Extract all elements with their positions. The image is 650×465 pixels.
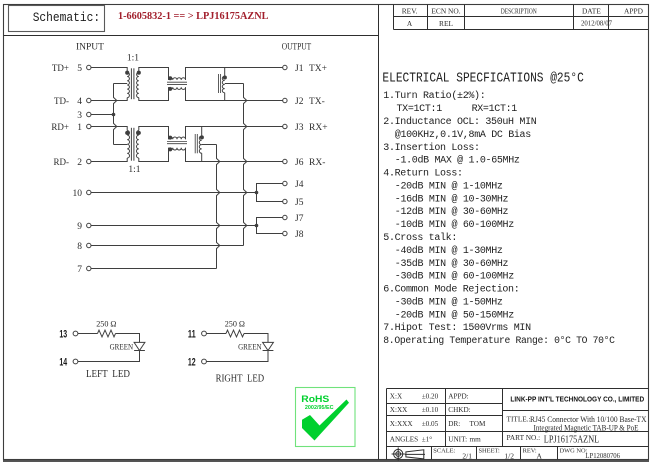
svg-text:RX=1CT:1: RX=1CT:1 bbox=[472, 104, 518, 115]
svg-text:ANGLES: ANGLES bbox=[390, 436, 418, 444]
wire A2 tap bbox=[202, 144, 217, 146]
svg-text:8.Operating Temperature Range:: 8.Operating Temperature Range: 0°C TO 70… bbox=[383, 335, 615, 347]
svg-text:250 Ω: 250 Ω bbox=[96, 319, 116, 329]
wire pin11 to resistor bbox=[206, 333, 226, 335]
svg-text:TX=1CT:1: TX=1CT:1 bbox=[397, 104, 443, 115]
pin 4 terminal bbox=[87, 98, 91, 102]
wire T2 primary center tap bbox=[114, 144, 128, 146]
svg-text:1.Turn Ratio(±2%):: 1.Turn Ratio(±2%): bbox=[383, 90, 485, 102]
svg-text:2002/95/EC: 2002/95/EC bbox=[305, 405, 334, 411]
svg-text:J2: J2 bbox=[295, 97, 304, 107]
pin 9 terminal bbox=[87, 223, 91, 227]
pin 1 terminal bbox=[87, 124, 91, 128]
wire pin7 bbox=[91, 268, 217, 270]
svg-text:SCALE:: SCALE: bbox=[433, 447, 455, 454]
svg-text:3: 3 bbox=[77, 111, 82, 121]
wire pin8 bbox=[91, 245, 244, 247]
wire A1 tap bbox=[225, 83, 244, 85]
svg-text:-12dB MIN @ 30-60MHz: -12dB MIN @ 30-60MHz bbox=[395, 206, 509, 218]
svg-text:14: 14 bbox=[59, 357, 67, 369]
pin 3 terminal bbox=[87, 112, 91, 116]
svg-text:7: 7 bbox=[77, 265, 82, 275]
wire pin5 TD+ to T1 primary top bbox=[91, 68, 127, 73]
svg-text:-40dB MIN @ 1-30MHz: -40dB MIN @ 1-30MHz bbox=[395, 245, 503, 257]
svg-text:APPD: APPD bbox=[624, 6, 644, 15]
wire pin10 to J4/J5 junction bbox=[91, 192, 257, 194]
wire pin3 to center-tap junction bbox=[91, 114, 114, 116]
choke CH1 common-mode TX bbox=[167, 77, 187, 91]
svg-text:250 Ω: 250 Ω bbox=[225, 319, 245, 329]
wire T2 secondary top to choke CH2 bbox=[139, 127, 169, 140]
svg-text:DR:: DR: bbox=[448, 420, 460, 428]
pin J4 terminal bbox=[283, 181, 287, 185]
svg-text:LP12080706: LP12080706 bbox=[585, 451, 620, 460]
svg-text:-35dB MIN @ 30-60MHz: -35dB MIN @ 30-60MHz bbox=[395, 258, 509, 270]
svg-text:-10dB MIN @ 60-100MHz: -10dB MIN @ 60-100MHz bbox=[395, 219, 514, 231]
svg-text:1:1: 1:1 bbox=[128, 165, 140, 175]
svg-text:J1: J1 bbox=[295, 64, 304, 74]
svg-text:REL: REL bbox=[439, 19, 453, 28]
svg-text:@100KHz,0.1V,8mA DC Bias: @100KHz,0.1V,8mA DC Bias bbox=[395, 129, 531, 141]
svg-text:4.Return Loss:: 4.Return Loss: bbox=[383, 169, 462, 180]
wire LED cathode to pin12 bbox=[206, 351, 268, 362]
wire center-tap bus pin3 to T1/T2 primary taps (hops TD- and RD+) bbox=[114, 84, 117, 145]
pin 2 terminal bbox=[87, 159, 91, 163]
pin 12 terminal bbox=[202, 359, 207, 364]
wire resistor to LED anode bbox=[116, 334, 140, 343]
wire T1 primary center tap bbox=[114, 83, 128, 85]
svg-text:TOM: TOM bbox=[470, 420, 486, 428]
svg-text:J3: J3 bbox=[295, 123, 304, 133]
wire choke CH2 to J6 RX- rail bbox=[186, 148, 283, 162]
svg-text:DATE: DATE bbox=[582, 6, 601, 15]
LED D GREEN bbox=[134, 342, 145, 350]
svg-text:Schematic:: Schematic: bbox=[33, 11, 100, 25]
svg-text:2012/08/07: 2012/08/07 bbox=[581, 20, 612, 28]
svg-text:ECN NO.: ECN NO. bbox=[431, 6, 460, 15]
svg-text:APPD:: APPD: bbox=[448, 393, 468, 401]
svg-text:TX-: TX- bbox=[309, 97, 325, 107]
svg-text:RX-: RX- bbox=[309, 158, 325, 168]
wire pin2 RD- to T2 primary bottom bbox=[91, 158, 127, 162]
svg-text:OUTPUT: OUTPUT bbox=[282, 43, 312, 53]
svg-text:±0.20: ±0.20 bbox=[422, 393, 439, 401]
svg-text:-1.0dB MAX @ 1.0-65MHz: -1.0dB MAX @ 1.0-65MHz bbox=[395, 155, 520, 167]
svg-text:DESCRIPTION: DESCRIPTION bbox=[501, 6, 537, 15]
svg-text:X:XX: X:XX bbox=[390, 406, 408, 414]
svg-text:LEFT LED: LEFT LED bbox=[86, 369, 130, 380]
svg-text:DWG NO:: DWG NO: bbox=[560, 447, 588, 454]
svg-text:RIGHT LED: RIGHT LED bbox=[216, 373, 265, 384]
svg-text:-20dB MIN @ 50-150MHz: -20dB MIN @ 50-150MHz bbox=[395, 309, 514, 321]
pin J7 terminal bbox=[283, 215, 287, 219]
svg-text:TX+: TX+ bbox=[309, 64, 327, 74]
svg-text:2: 2 bbox=[77, 158, 82, 168]
pin J5 terminal bbox=[283, 199, 287, 203]
pin J6 terminal bbox=[283, 159, 287, 163]
logo RoHS compliance mark bbox=[296, 388, 356, 447]
svg-text:REV.: REV. bbox=[402, 6, 418, 15]
autotransformer A2 RX bbox=[195, 127, 203, 162]
pin J1 terminal bbox=[283, 65, 287, 69]
svg-text:LINK-PP INT'L TECHNOLOGY CO.,: LINK-PP INT'L TECHNOLOGY CO., LIMITED bbox=[510, 395, 644, 404]
svg-text:J8: J8 bbox=[295, 230, 304, 240]
wire pin1 RD+ to T2 primary top bbox=[91, 127, 127, 131]
svg-text:mm: mm bbox=[470, 436, 482, 444]
svg-text:TD-: TD- bbox=[54, 96, 69, 106]
wire pin13 to resistor bbox=[78, 333, 98, 335]
svg-text:PART NO.:: PART NO.: bbox=[507, 433, 541, 442]
svg-text:REV:: REV: bbox=[523, 447, 537, 454]
svg-text:4: 4 bbox=[77, 97, 82, 107]
svg-text:GREEN: GREEN bbox=[238, 342, 262, 352]
svg-text:13: 13 bbox=[59, 329, 67, 341]
svg-text:RX+: RX+ bbox=[309, 123, 328, 133]
svg-text:12: 12 bbox=[188, 357, 196, 369]
wire A1 tap down to pin8 (hops rails and pin lines) bbox=[244, 84, 247, 246]
svg-text:UNIT:: UNIT: bbox=[448, 436, 467, 444]
svg-text:LPJ16175AZNL: LPJ16175AZNL bbox=[544, 434, 600, 446]
svg-text:X:X: X:X bbox=[390, 393, 403, 401]
wire choke CH1 to J2 TX- rail bbox=[186, 87, 283, 100]
pin 10 terminal bbox=[87, 190, 91, 194]
wire T2 secondary bottom to choke CH2 bbox=[139, 148, 169, 162]
svg-text:RD+: RD+ bbox=[51, 122, 69, 132]
transformer T1 1:1 TX bbox=[126, 68, 141, 99]
svg-text:X:XXX: X:XXX bbox=[390, 420, 414, 428]
resistor R 250 ohm bbox=[226, 330, 244, 337]
pin 5 terminal bbox=[87, 65, 91, 69]
wire choke CH1 to J1 TX+ rail bbox=[186, 68, 283, 80]
svg-text:Integrated Magnetic TAB-UP & P: Integrated Magnetic TAB-UP & PoE bbox=[534, 423, 639, 432]
svg-text:A: A bbox=[407, 19, 413, 28]
svg-text:±1°: ±1° bbox=[422, 436, 433, 444]
svg-text:RoHS: RoHS bbox=[301, 394, 329, 404]
choke CH2 common-mode RX bbox=[167, 136, 187, 151]
pin 11 terminal bbox=[202, 331, 207, 336]
wire pin9 to J7/J8 junction bbox=[91, 225, 257, 227]
third-angle projection symbol bbox=[392, 447, 425, 460]
autotransformer A1 TX bbox=[219, 68, 227, 101]
svg-text:2/1: 2/1 bbox=[462, 451, 472, 460]
svg-text:2.Inductance OCL: 350uH MIN: 2.Inductance OCL: 350uH MIN bbox=[383, 116, 536, 128]
wire J7/J8 tie bar bbox=[257, 218, 283, 234]
svg-text:10: 10 bbox=[73, 189, 83, 199]
svg-text:-20dB MIN @ 1-10MHz: -20dB MIN @ 1-10MHz bbox=[395, 180, 503, 192]
svg-text:SHEET:: SHEET: bbox=[479, 447, 501, 454]
wire pin4 TD- to T1 primary bottom bbox=[91, 98, 127, 101]
pin 13 terminal bbox=[73, 331, 78, 336]
pin 8 terminal bbox=[87, 243, 91, 247]
svg-text:5.Cross talk:: 5.Cross talk: bbox=[383, 232, 457, 244]
svg-text:ELECTRICAL SPECFICATIONS @25°C: ELECTRICAL SPECFICATIONS @25°C bbox=[382, 72, 583, 87]
pin J2 terminal bbox=[283, 98, 287, 102]
svg-text:1: 1 bbox=[77, 123, 82, 133]
svg-text:-30dB MIN @ 1-50MHz: -30dB MIN @ 1-50MHz bbox=[395, 296, 503, 308]
svg-text:7.Hipot Test: 1500Vrms MIN: 7.Hipot Test: 1500Vrms MIN bbox=[383, 322, 531, 334]
junction node pin3 bus bbox=[112, 113, 116, 117]
svg-text:CHKD:: CHKD: bbox=[448, 406, 470, 414]
svg-text:TITLE.:: TITLE.: bbox=[507, 415, 531, 424]
svg-text:J4: J4 bbox=[295, 180, 304, 190]
wire A2 tap down to pin7 (hops rails and pin lines) bbox=[217, 145, 220, 269]
svg-text:11: 11 bbox=[188, 329, 196, 341]
svg-text:±0.05: ±0.05 bbox=[422, 420, 439, 428]
svg-text:TD+: TD+ bbox=[52, 63, 69, 73]
resistor R 250 ohm bbox=[98, 330, 116, 337]
svg-text:6.Common Mode Rejection:: 6.Common Mode Rejection: bbox=[383, 284, 519, 296]
wire J4/J5 tie bar bbox=[257, 184, 283, 202]
svg-text:1:1: 1:1 bbox=[127, 53, 139, 63]
pin 7 terminal bbox=[87, 266, 91, 270]
wire T1 secondary bottom to choke CH1 bbox=[139, 87, 169, 100]
svg-text:J7: J7 bbox=[295, 214, 304, 224]
junction node J7/J8 bbox=[255, 224, 259, 228]
wire resistor to LED anode bbox=[244, 334, 268, 343]
svg-text:INPUT: INPUT bbox=[76, 43, 104, 53]
svg-text:±0.10: ±0.10 bbox=[422, 406, 439, 414]
pin 14 terminal bbox=[73, 359, 78, 364]
svg-text:RD-: RD- bbox=[54, 157, 70, 167]
svg-text:GREEN: GREEN bbox=[110, 342, 134, 352]
svg-text:1/2: 1/2 bbox=[504, 451, 514, 460]
svg-text:5: 5 bbox=[77, 64, 82, 74]
svg-text:8: 8 bbox=[77, 242, 82, 252]
LED D GREEN bbox=[263, 342, 274, 350]
svg-text:J6: J6 bbox=[295, 158, 304, 168]
svg-text:-30dB MIN @ 60-100MHz: -30dB MIN @ 60-100MHz bbox=[395, 271, 514, 283]
svg-text:9: 9 bbox=[77, 222, 82, 232]
svg-text:-16dB MIN @ 10-30MHz: -16dB MIN @ 10-30MHz bbox=[395, 193, 509, 205]
wire choke CH2 to J3 RX+ rail bbox=[186, 127, 283, 140]
wire T1 secondary top to choke CH1 bbox=[139, 68, 169, 80]
pin J3 terminal bbox=[283, 124, 287, 128]
junction node J4/J5 bbox=[255, 191, 259, 195]
transformer T2 1:1 RX bbox=[126, 128, 141, 161]
svg-text:A: A bbox=[537, 451, 543, 460]
wire LED cathode to pin14 bbox=[78, 351, 140, 362]
svg-text:1-6605832-1 == > LPJ16175AZNL: 1-6605832-1 == > LPJ16175AZNL bbox=[118, 10, 269, 22]
pin J8 terminal bbox=[283, 231, 287, 235]
svg-text:J5: J5 bbox=[295, 198, 304, 208]
svg-text:3.Insertion Loss:: 3.Insertion Loss: bbox=[383, 142, 479, 154]
